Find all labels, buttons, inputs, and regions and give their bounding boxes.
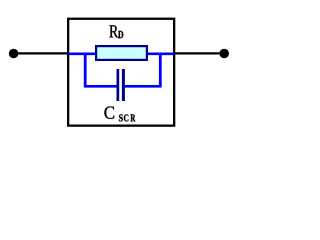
wire (bottom horizontal blue, right of capacitor) (125, 85, 162, 88)
enclosure box (snubber outline) (68, 19, 174, 126)
capacitor C_SCR right plate (122, 69, 125, 101)
wire (bottom horizontal blue, left of capacitor) (84, 85, 117, 88)
label R_D : subscript D (118, 31, 123, 38)
wire (left lead from terminal to box) (14, 52, 70, 54)
label R_D : R (109, 25, 118, 37)
wire (top horizontal blue, right segment from resistor) (147, 52, 174, 55)
label C_SCR : subscript S (119, 114, 123, 121)
resistor R_D body (96, 46, 147, 60)
wire (right lead from box to terminal) (173, 52, 224, 54)
node (right terminal dot) (219, 49, 229, 59)
label C_SCR : subscript R (131, 114, 136, 121)
capacitor C_SCR left plate (117, 69, 120, 101)
label C_SCR : C (104, 106, 114, 118)
wire (top horizontal blue, left segment to resistor) (68, 52, 96, 55)
wire (right vertical branch) (159, 53, 162, 86)
node (left terminal dot) (9, 49, 19, 59)
label C_SCR : subscript C (124, 114, 128, 121)
wire (left vertical branch) (84, 53, 87, 86)
